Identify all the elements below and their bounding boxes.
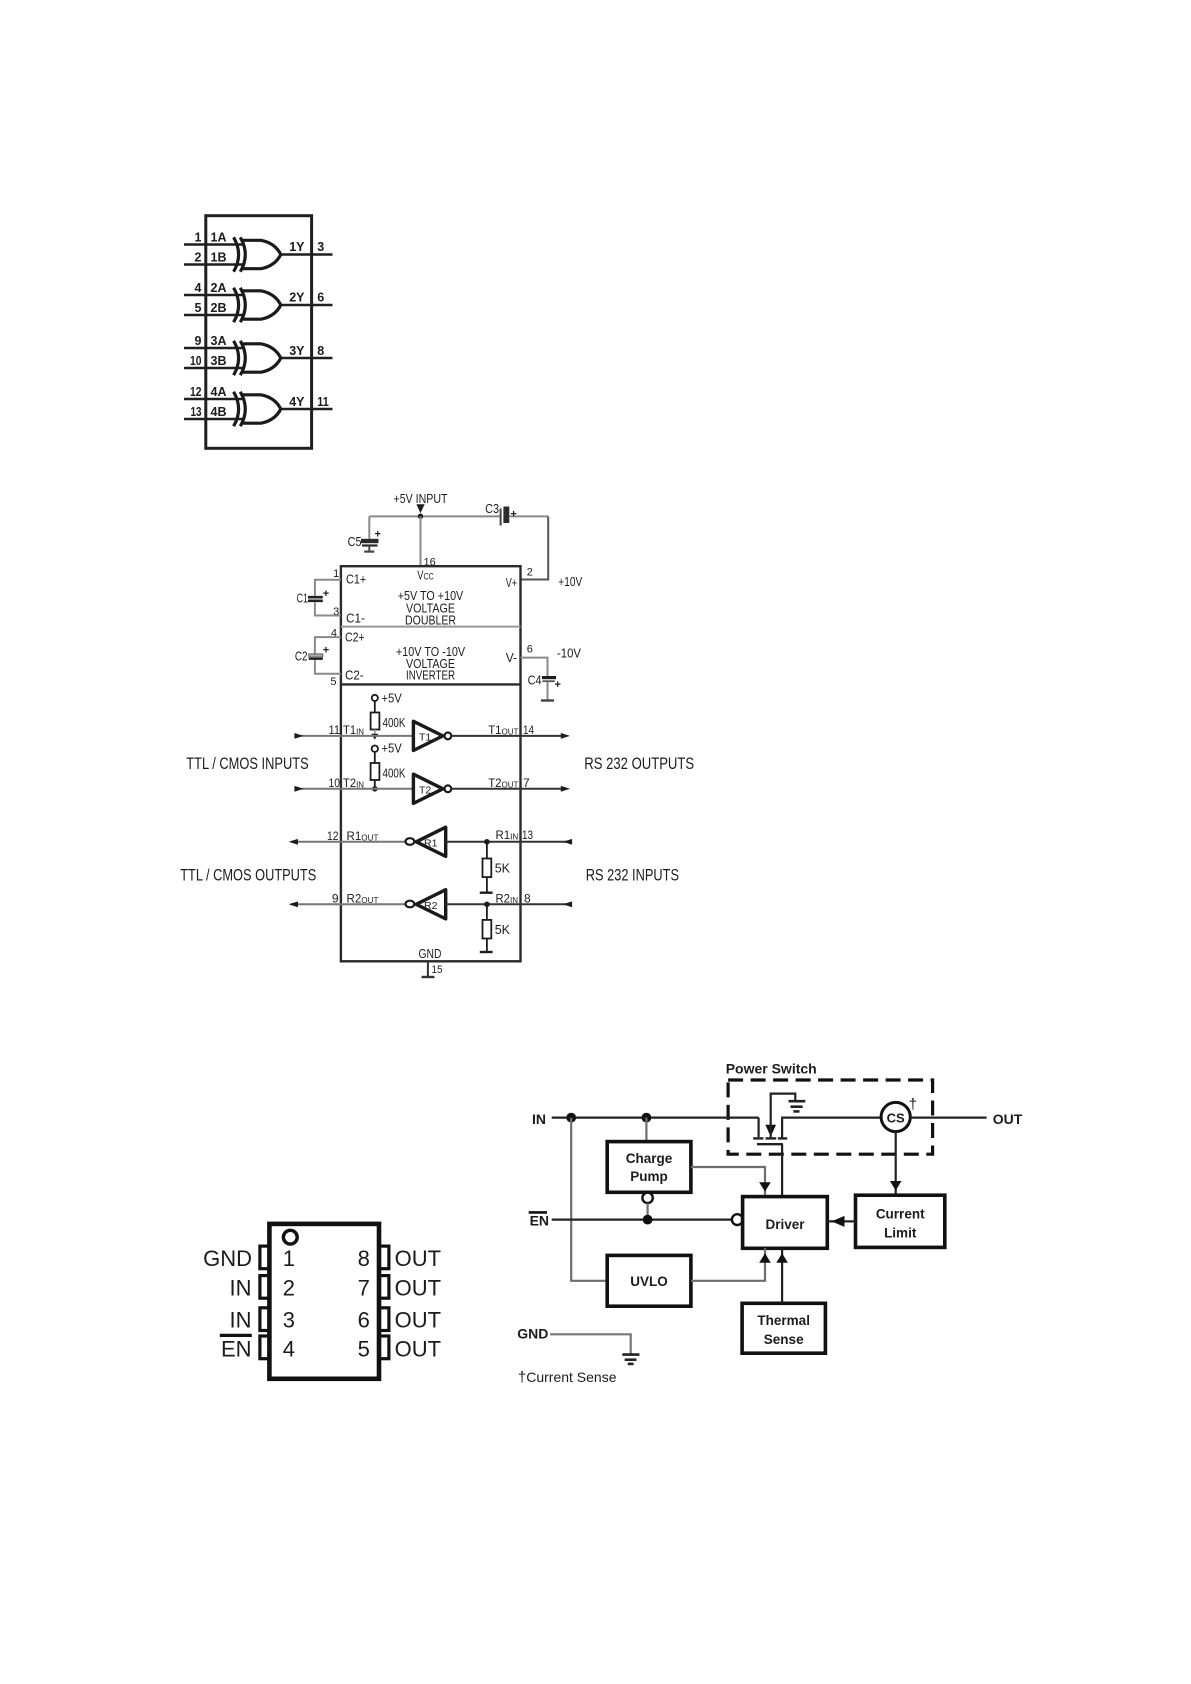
svg-text:Current: Current [876,1207,925,1222]
svg-text:4: 4 [283,1337,295,1362]
svg-text:16: 16 [424,557,436,569]
svg-text:C3: C3 [485,502,499,516]
arrow resistor to T1 input [374,730,376,735]
EN overline [529,1211,547,1214]
svg-text:9: 9 [195,334,202,348]
node IN junction 1 [566,1113,576,1123]
wire EN line [552,1218,732,1220]
DIP8 package body [269,1224,379,1379]
arrow UVLO into driver bottom [759,1253,771,1262]
wire thermal sense to driver [781,1248,783,1303]
power switch dashed box [728,1080,933,1154]
svg-text:+: + [555,679,561,691]
wire R2OUT line [291,903,407,905]
svg-text:T2OUT: T2OUT [488,776,518,790]
Driver block [743,1197,828,1249]
svg-text:2B: 2B [211,301,227,315]
svg-text:R2OUT: R2OUT [347,892,379,906]
svg-text:11: 11 [329,723,341,737]
Current Limit block [856,1195,945,1247]
svg-text:5K: 5K [495,923,511,937]
MAX232 body box [341,566,521,961]
arrow R1OUT [289,839,298,845]
wire 2Y output [281,304,333,307]
node +5V junction [418,514,423,519]
buffer T2 [413,774,451,803]
XOR gate G1 input arc [234,237,239,271]
ground R2 5K [480,951,493,953]
svg-text:GND: GND [203,1246,252,1271]
divider inverter section [341,683,521,685]
svg-text:11: 11 [317,395,329,409]
buffer T1 [413,721,451,750]
node R1IN junction [484,839,490,845]
arrow into driver top [759,1182,771,1191]
svg-text:+5V INPUT: +5V INPUT [394,492,448,506]
capacitor C4 [528,674,561,701]
svg-text:1B: 1B [211,251,227,265]
wire T2OUT line [451,788,562,790]
svg-text:IN: IN [532,1111,546,1127]
driver input bubble [732,1214,743,1225]
wire V+ to C3 [521,516,549,579]
svg-text:3A: 3A [211,334,227,348]
svg-text:13: 13 [522,828,533,842]
svg-text:+: + [323,588,329,600]
wire IN to charge pump [645,1118,647,1142]
svg-text:C2+: C2+ [345,630,365,644]
svg-text:2: 2 [283,1276,295,1301]
svg-text:2A: 2A [211,281,227,295]
arrow into current limit [890,1181,902,1191]
svg-text:+10V: +10V [558,575,582,589]
wire IN line [552,1116,759,1118]
Charge Pump block [607,1142,691,1193]
svg-text:10: 10 [329,776,341,790]
wire 3B input [184,367,245,370]
receiver R2 [406,890,446,919]
svg-text:T1: T1 [419,732,431,744]
svg-text:†: † [909,1096,917,1113]
EN overline [220,1334,252,1337]
ground in power switch [789,1101,806,1111]
svg-text:TTL / CMOS OUTPUTS: TTL / CMOS OUTPUTS [180,866,316,885]
svg-text:1: 1 [333,568,339,580]
svg-text:1A: 1A [211,231,227,245]
svg-text:3B: 3B [211,354,227,368]
svg-text:6: 6 [317,291,324,305]
doubler caption [398,589,464,628]
arrow T2IN [294,786,303,792]
svg-text:9: 9 [332,892,339,906]
svg-text:OUT: OUT [993,1111,1023,1127]
resistor 5K R2 [483,904,511,951]
XOR gate G4 body [240,392,280,426]
svg-text:R1IN: R1IN [496,828,519,842]
node EN junction [643,1215,653,1225]
svg-text:8: 8 [317,344,324,358]
wire 3Y output [281,357,333,360]
svg-text:EN: EN [530,1213,549,1229]
pin 8 pad [378,1246,389,1269]
svg-text:T2: T2 [419,784,431,796]
svg-text:+: + [375,529,381,541]
svg-text:4Y: 4Y [289,395,305,409]
ground symbol [622,1355,639,1364]
XOR gate G2 body [240,288,280,322]
svg-text:RS 232 OUTPUTS: RS 232 OUTPUTS [584,754,694,773]
svg-text:12: 12 [190,385,202,399]
svg-text:5: 5 [330,676,336,688]
arrow thermal into driver bottom [776,1253,788,1262]
svg-text:Driver: Driver [765,1217,805,1232]
wire gate to driver [781,1144,783,1196]
current sense CS [881,1096,917,1132]
svg-text:1: 1 [283,1246,295,1271]
svg-text:C2-: C2- [345,669,364,683]
svg-text:8: 8 [524,892,531,906]
arrow R1IN [563,839,572,845]
wire bubble to EN line [646,1203,648,1220]
resistor 5K R1 [483,842,511,892]
svg-text:GND: GND [419,947,442,961]
svg-text:8: 8 [358,1246,370,1271]
svg-text:T1IN: T1IN [343,723,364,737]
svg-text:+: + [323,645,329,657]
arrow T1OUT [561,733,570,739]
svg-text:T1OUT: T1OUT [488,723,518,737]
svg-text:3Y: 3Y [289,344,305,358]
svg-text:OUT: OUT [395,1276,441,1301]
capacitor C5 [348,516,381,551]
XOR gate G4 input arc [234,392,239,426]
wire 4B input [184,418,245,421]
wire T1OUT line [451,735,562,737]
svg-text:CS: CS [887,1110,905,1125]
svg-text:Power Switch: Power Switch [726,1061,817,1077]
svg-text:T2IN: T2IN [343,776,364,790]
wire C2 loop [315,637,341,674]
svg-text:4A: 4A [211,385,227,399]
svg-text:-10V: -10V [557,647,582,661]
svg-text:4B: 4B [211,405,227,419]
svg-text:C1: C1 [297,592,308,606]
svg-text:+5V: +5V [382,692,403,706]
svg-text:IN: IN [230,1308,252,1333]
svg-text:R2IN: R2IN [496,892,519,906]
XOR gate G1 body [240,237,280,271]
svg-text:7: 7 [523,776,530,790]
XOR gate G2 input arc [234,288,239,322]
pin 3 pad [260,1308,271,1331]
ground R1 5K [480,892,493,894]
svg-text:10: 10 [190,354,202,368]
pin 1 pad [260,1246,271,1269]
svg-text:Pump: Pump [630,1169,668,1184]
svg-text:OUT: OUT [395,1246,441,1271]
svg-text:5: 5 [195,301,202,315]
capacitor C3 [485,502,517,526]
wire R1OUT line [291,841,407,843]
svg-text:13: 13 [191,405,202,419]
svg-text:C5: C5 [348,535,362,549]
svg-text:V+: V+ [506,576,517,590]
pullup +5V terminal T1 [372,692,403,706]
resistor 400K T2 [371,752,406,789]
wire 2B input [184,314,245,317]
node R2IN junction [484,902,490,908]
svg-text:R1OUT: R1OUT [347,829,379,843]
svg-text:+: + [510,509,516,521]
svg-text:14: 14 [523,723,534,737]
divider doubler section [341,626,521,628]
pin 5 pad [378,1336,389,1359]
inverter caption [396,645,466,683]
svg-text:Thermal: Thermal [757,1313,810,1328]
svg-text:VCC: VCC [417,569,433,583]
wire 3A input [184,347,245,350]
svg-text:3: 3 [317,240,324,254]
svg-text:R1: R1 [424,837,438,849]
arrow R2OUT [289,901,298,907]
svg-text:INVERTER: INVERTER [406,669,455,683]
svg-text:OUT: OUT [395,1337,441,1362]
svg-text:†Current Sense: †Current Sense [518,1369,617,1386]
pin 6 pad [378,1308,389,1331]
wire current limit to driver [827,1220,855,1222]
XOR gate G3 input arc [234,341,239,375]
arrow T1IN [294,733,303,739]
svg-text:C1+: C1+ [346,572,366,586]
svg-text:2: 2 [527,567,533,579]
svg-text:12: 12 [327,829,339,843]
+5V input arrow [416,504,424,513]
svg-text:15: 15 [432,964,443,976]
svg-text:6: 6 [358,1308,370,1333]
svg-text:IN: IN [230,1276,252,1301]
node T2 input junction [372,786,378,792]
pin 2 pad [260,1276,271,1299]
wire C1 loop [315,580,341,616]
arrow into driver right [832,1216,845,1227]
svg-text:2Y: 2Y [289,291,305,305]
wire T1IN line [301,735,413,737]
svg-text:+5V: +5V [382,742,403,756]
svg-text:2: 2 [195,251,202,265]
wire UVLO to driver [691,1248,765,1281]
svg-text:400K: 400K [383,716,406,730]
UVLO block [607,1255,691,1306]
pin 7 pad [378,1276,389,1299]
svg-text:400K: 400K [383,767,406,781]
svg-text:C2: C2 [295,650,308,664]
wire 2A input [184,294,245,297]
pullup +5V terminal T2 [372,742,403,756]
svg-text:R2: R2 [424,900,438,912]
wire 1A input [184,243,245,246]
Thermal Sense block [742,1303,825,1353]
wire charge pump to driver [691,1167,765,1197]
receiver R1 [406,827,446,856]
svg-text:1: 1 [195,231,202,245]
wire IN to UVLO [571,1118,607,1281]
wire GND [550,1334,631,1353]
svg-text:EN: EN [221,1337,252,1362]
svg-text:3: 3 [283,1308,295,1333]
IC body box [206,216,312,449]
svg-text:Charge: Charge [626,1151,673,1166]
svg-text:4: 4 [195,281,202,295]
wire T2IN line [301,788,413,790]
resistor 400K T1 [371,701,406,730]
svg-text:UVLO: UVLO [630,1274,668,1289]
svg-text:C4: C4 [528,674,542,688]
svg-text:7: 7 [358,1276,370,1301]
node IN junction 2 [642,1113,652,1123]
svg-text:Sense: Sense [764,1332,804,1347]
capacitor C1 [297,588,330,606]
pin 15 ground stub [422,961,443,977]
svg-text:5K: 5K [495,862,511,876]
svg-text:DOUBLER: DOUBLER [405,614,456,628]
wire 1Y output [281,253,333,256]
wire R1IN line [446,841,572,843]
svg-text:5: 5 [358,1337,370,1362]
wire 1B input [184,263,245,266]
svg-text:6: 6 [527,644,533,656]
capacitor C2 [295,645,329,664]
wire Vcc pin 16 [420,516,422,566]
svg-text:C1-: C1- [346,612,365,626]
XOR gate G3 body [240,341,280,375]
svg-text:TTL / CMOS INPUTS: TTL / CMOS INPUTS [186,754,308,773]
wire CS to current limit [895,1132,897,1196]
pin 1 indicator circle [283,1230,297,1244]
wire 4A input [184,398,245,401]
svg-text:RS 232 INPUTS: RS 232 INPUTS [586,866,679,885]
svg-text:V-: V- [506,651,517,665]
wire R2IN line [446,903,572,905]
MOSFET pass transistor [753,1094,881,1145]
wire CS to OUT [910,1116,986,1118]
arrow T2OUT [561,786,570,792]
pin 4 pad [260,1336,271,1359]
svg-text:OUT: OUT [395,1308,441,1333]
svg-text:Limit: Limit [884,1226,917,1241]
svg-text:1Y: 1Y [289,240,305,254]
wire 4Y output [281,408,333,411]
charge pump enable bubble [642,1193,652,1203]
wire V- to C4 [521,658,548,677]
svg-text:GND: GND [517,1326,548,1342]
wire top rail [369,515,548,517]
arrow R2IN [563,901,572,907]
